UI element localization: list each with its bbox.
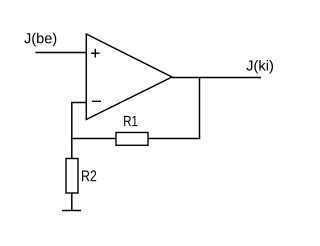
wire output <box>172 77 261 79</box>
wire node A vertical <box>71 103 73 159</box>
wire R2 to ground <box>71 193 73 211</box>
wire feedback vertical from output node <box>199 78 201 139</box>
wire inverting input <box>71 102 86 104</box>
label R1 <box>124 116 137 126</box>
wire R1 left lead to node A <box>71 138 116 140</box>
wire input to + pin <box>36 52 87 54</box>
op-amp inverting input marker - <box>92 100 101 102</box>
label J(ki) <box>246 60 273 74</box>
resistor R2 <box>66 159 78 194</box>
ground <box>62 210 81 212</box>
wire R1 right lead <box>148 138 200 140</box>
resistor R1 <box>116 133 148 146</box>
label R2 <box>82 170 96 181</box>
op-amp U1 triangle body <box>86 34 172 120</box>
label J(be) <box>24 33 56 47</box>
op-amp non-inverting input marker + <box>91 49 100 58</box>
